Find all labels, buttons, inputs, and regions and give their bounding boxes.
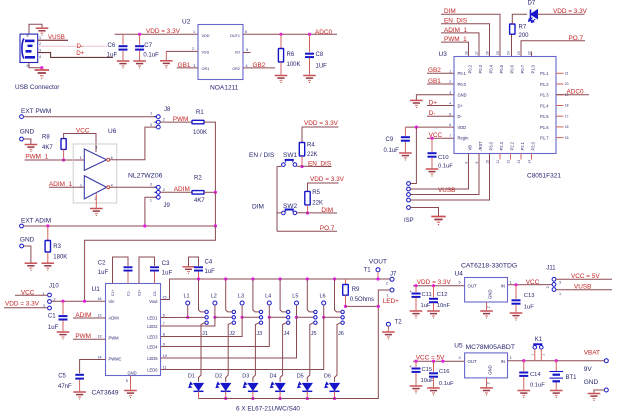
junction C1 — [61, 300, 64, 303]
svg-text:1: 1 — [150, 112, 152, 116]
wire D7 to VDD — [538, 13, 585, 15]
svg-text:L3: L3 — [238, 294, 244, 300]
svg-text:18: 18 — [565, 104, 569, 108]
wire J9 pin 1 to EXT ADIM — [145, 197, 156, 226]
svg-text:VUSB: VUSB — [438, 187, 455, 194]
svg-text:L5: L5 — [292, 294, 298, 300]
wire D6 to return rail — [334, 391, 336, 398]
wire PWM to R1 — [160, 121, 192, 123]
svg-text:C9: C9 — [386, 137, 394, 143]
wire D3 to return rail — [252, 391, 254, 398]
junction R5/DIM — [306, 211, 309, 214]
capacitor C7 — [139, 34, 141, 45]
wire L6 to LED6 net — [323, 305, 325, 317]
ground (U3 GND) — [410, 100, 423, 107]
wire bus to J3 top pin — [253, 279, 259, 312]
wire VDD 3.3V to J10 pin 3 — [4, 307, 48, 309]
U6 NL27WZ06 outline box — [73, 144, 117, 203]
svg-text:VDD: VDD — [458, 125, 467, 130]
wire ADIM to U1 pin 12 — [73, 317, 106, 319]
wire ISP pin 2 to U3 VB — [410, 154, 468, 190]
ground (BT1) — [550, 391, 563, 398]
svg-text:P2.2: P2.2 — [510, 141, 515, 150]
wire VDD to ISP pin 1 — [410, 127, 416, 183]
svg-text:1uF: 1uF — [205, 269, 216, 275]
svg-text:GB2: GB2 — [428, 67, 441, 74]
junction T1 — [376, 277, 379, 280]
svg-text:GND: GND — [458, 93, 467, 98]
junction bus drop 4 — [279, 277, 282, 280]
svg-text:C1-: C1- — [127, 290, 131, 296]
junction R6 — [279, 33, 282, 36]
ground (C8) — [303, 76, 316, 83]
svg-text:OR2: OR2 — [232, 67, 240, 71]
svg-text:5: 5 — [27, 34, 29, 38]
battery BT1 — [555, 361, 557, 372]
svg-text:5: 5 — [95, 146, 97, 150]
wire GND to ground — [23, 139, 31, 144]
svg-text:OUT: OUT — [468, 359, 477, 364]
svg-text:2: 2 — [192, 47, 194, 51]
wire LED1 from U1 — [161, 316, 205, 318]
svg-text:OR1: OR1 — [202, 67, 210, 71]
svg-text:J8: J8 — [164, 107, 171, 113]
svg-text:U1: U1 — [92, 286, 101, 293]
svg-text:GND: GND — [488, 365, 493, 375]
svg-text:EXT ADIM: EXT ADIM — [21, 218, 51, 225]
svg-text:0.1uF: 0.1uF — [439, 381, 454, 387]
svg-text:CAT6218-330TDG: CAT6218-330TDG — [461, 262, 517, 269]
junction bus drop 6 — [333, 277, 336, 280]
wire D1 to return rail — [198, 391, 200, 398]
svg-text:J9: J9 — [164, 203, 171, 209]
svg-text:20: 20 — [565, 82, 569, 86]
svg-text:D4: D4 — [270, 374, 277, 380]
ground (USB bottom) — [41, 68, 43, 70]
wire PWM to U1 pin 13 — [73, 338, 106, 340]
svg-text:MC78M05ABDT: MC78M05ABDT — [466, 344, 515, 351]
U2 pin 3 wire — [177, 67, 198, 69]
svg-text:LED2: LED2 — [147, 324, 158, 329]
capacitor C11 — [415, 286, 417, 292]
wire VDD rail to U2 pin 1 — [115, 33, 199, 35]
wire GND pin to ground — [594, 390, 604, 393]
svg-text:3: 3 — [150, 123, 152, 127]
svg-text:4: 4 — [246, 64, 248, 68]
svg-text:C11: C11 — [422, 292, 432, 298]
svg-text:10nF: 10nF — [437, 303, 451, 309]
ground (C16) — [427, 388, 440, 395]
svg-text:C12: C12 — [437, 292, 448, 298]
wire P0.7 to PO.7 label — [521, 41, 585, 57]
svg-text:P1.5: P1.5 — [540, 114, 549, 119]
junction rail D5 — [306, 397, 309, 400]
svg-text:ADIM: ADIM — [109, 315, 120, 320]
wire U4 GND pin to ground — [486, 302, 488, 310]
svg-text:15: 15 — [565, 136, 569, 140]
svg-text:U2: U2 — [182, 19, 191, 26]
ground (C1) — [57, 332, 70, 339]
junction bus drop 2 — [224, 277, 227, 280]
svg-text:DIM: DIM — [252, 204, 264, 211]
svg-text:C7: C7 — [144, 43, 152, 49]
wire U3 GND pin to ground — [416, 95, 454, 100]
wire U5 IN to VBAT — [508, 360, 605, 362]
svg-text:+: + — [409, 364, 412, 369]
svg-text:ADIM_1: ADIM_1 — [49, 181, 73, 188]
wire R3 to ground — [47, 252, 49, 263]
wire U6 pin 2 to ground — [95, 193, 97, 208]
svg-text:13: 13 — [517, 160, 521, 164]
wire VCC to J10 pin 1 — [15, 294, 48, 296]
svg-text:VCC = 5V: VCC = 5V — [571, 273, 600, 280]
ground (C6) — [117, 61, 130, 68]
svg-text:12: 12 — [98, 313, 102, 317]
wire VDD to R5 — [308, 183, 339, 191]
junction R4/EN_DIS — [300, 165, 303, 168]
wire D- from USB pin 2 — [38, 45, 107, 47]
svg-text:VDD = 3.3V: VDD = 3.3V — [5, 301, 40, 308]
svg-text:2: 2 — [163, 188, 165, 192]
svg-text:23: 23 — [517, 51, 521, 55]
svg-text:ADIM: ADIM — [75, 312, 91, 319]
ground (C5) — [73, 392, 86, 399]
svg-text:GND: GND — [488, 289, 493, 299]
svg-text:D7: D7 — [528, 1, 536, 7]
wire J4 bottom pin to D4 — [280, 323, 286, 382]
junction R8/PWM_1 — [62, 158, 65, 161]
wire LED2 from U1 — [161, 317, 233, 326]
svg-text:USB Connector: USB Connector — [15, 84, 60, 91]
capacitor C15 — [415, 361, 417, 367]
U3 P1.0 stub — [531, 52, 533, 57]
svg-text:C1+: C1+ — [111, 289, 115, 296]
junction Vin rail — [83, 300, 86, 303]
svg-text:P0.0: P0.0 — [458, 82, 467, 87]
connector J6 — [341, 310, 344, 313]
resistor R7 — [511, 34, 513, 56]
wire SW1 right to EN_DIS label — [297, 165, 332, 167]
wire U1 GND pin to ground — [130, 376, 132, 390]
svg-text:+: + — [409, 289, 412, 294]
svg-text:U4: U4 — [455, 270, 464, 277]
svg-text:R1: R1 — [196, 110, 204, 116]
svg-text:J10: J10 — [49, 284, 59, 290]
wire LED3 from U1 — [161, 317, 260, 336]
wire D+ from USB pin 3 — [38, 53, 113, 58]
wire ISP pin 5 to ground — [410, 208, 438, 216]
USB connector body — [20, 34, 38, 62]
svg-text:P1.6: P1.6 — [540, 125, 549, 130]
resistor R9 — [345, 279, 347, 285]
svg-text:C14: C14 — [530, 372, 541, 378]
svg-text:SW1: SW1 — [283, 152, 297, 159]
wire PWM_1 to U3 P0.2 — [441, 42, 469, 56]
svg-text:P3.0: P3.0 — [489, 141, 494, 150]
wire D4 to return rail — [279, 391, 281, 398]
ground (C11) — [410, 311, 423, 318]
ground (C15) — [410, 386, 423, 393]
svg-text:Vin: Vin — [109, 299, 116, 304]
svg-text:1: 1 — [510, 356, 512, 360]
svg-text:GB1: GB1 — [178, 62, 191, 69]
resistor R5 — [305, 191, 310, 205]
svg-text:1: 1 — [510, 280, 512, 284]
svg-text:BT1: BT1 — [566, 375, 578, 381]
junction J9 branch — [143, 224, 146, 227]
svg-text:22K: 22K — [307, 152, 318, 158]
ground (R6) — [275, 76, 288, 83]
svg-text:1: 1 — [559, 292, 561, 296]
svg-text:2: 2 — [487, 306, 491, 308]
svg-text:K1: K1 — [535, 337, 543, 343]
junction rail D4 — [279, 397, 282, 400]
svg-text:PO.7: PO.7 — [320, 225, 335, 232]
U2 pin 2 wire to ground — [166, 50, 198, 52]
ground (C10) — [426, 169, 439, 176]
wire R4 to EN_DIS — [301, 156, 303, 167]
svg-text:C6: C6 — [108, 43, 116, 49]
junction C8 — [308, 33, 311, 36]
wire R8 bottom to PWM_1 — [63, 149, 65, 160]
svg-text:22K: 22K — [312, 200, 323, 206]
svg-text:11: 11 — [496, 160, 500, 164]
svg-text:180K: 180K — [53, 255, 67, 261]
svg-text:16: 16 — [98, 297, 102, 301]
svg-text:0.1uF: 0.1uF — [530, 382, 545, 388]
svg-text:VCC: VCC — [21, 289, 35, 296]
wire U1 Vout to bus — [161, 279, 391, 300]
svg-text:1: 1 — [80, 156, 82, 160]
svg-text:2: 2 — [39, 42, 41, 46]
svg-text:2: 2 — [386, 281, 388, 285]
svg-text:14: 14 — [528, 160, 532, 164]
connector J3 — [259, 310, 262, 313]
svg-text:ADC0: ADC0 — [315, 29, 332, 36]
LED driver U1 CAT3649 body — [106, 284, 161, 376]
svg-text:OUT1: OUT1 — [230, 34, 240, 38]
svg-text:200: 200 — [519, 33, 530, 39]
wire L3 to LED3 net — [241, 305, 243, 317]
svg-text:U6: U6 — [108, 128, 117, 135]
svg-text:25: 25 — [496, 51, 500, 55]
svg-text:C2: C2 — [98, 261, 106, 267]
svg-text:D+: D+ — [458, 103, 464, 108]
capacitor C9 — [404, 127, 406, 136]
capacitor C14 — [523, 361, 525, 371]
wire USB pin 4 to ground — [29, 63, 42, 68]
ground (U6) — [90, 209, 103, 216]
svg-text:3: 3 — [39, 49, 41, 53]
junction rail D3 — [251, 397, 254, 400]
wire SW2 left — [277, 212, 282, 214]
svg-text:VDD = 3.3V: VDD = 3.3V — [146, 28, 181, 35]
svg-text:VBAT: VBAT — [584, 349, 600, 356]
terminal GND pin — [604, 388, 608, 392]
svg-text:P1.1: P1.1 — [540, 71, 549, 76]
svg-text:28: 28 — [465, 51, 469, 55]
ground (C14) — [517, 391, 530, 398]
svg-text:R8: R8 — [42, 134, 50, 140]
svg-text:R2: R2 — [194, 176, 202, 182]
svg-text:3: 3 — [150, 183, 152, 187]
svg-text:C4: C4 — [205, 260, 213, 266]
svg-text:10: 10 — [486, 160, 490, 164]
svg-text:D+: D+ — [76, 50, 84, 57]
wire VDD 3.3V to U4 OUT — [413, 285, 465, 287]
svg-text:C8: C8 — [316, 52, 324, 58]
junction rail D6 — [333, 397, 336, 400]
capacitor C12 — [433, 286, 435, 298]
svg-text:6: 6 — [163, 313, 165, 317]
svg-text:ISP: ISP — [404, 218, 414, 224]
junction R3 — [46, 224, 49, 227]
svg-text:1: 1 — [39, 36, 41, 40]
svg-text:D2: D2 — [215, 374, 222, 380]
svg-text:6: 6 — [449, 123, 451, 127]
op-amp U2 NOA1211 body — [198, 25, 243, 80]
wire L2 to LED2 net — [214, 305, 216, 317]
svg-text:D-: D- — [77, 43, 84, 50]
svg-text:5: 5 — [459, 280, 461, 284]
svg-text:RegIn: RegIn — [458, 136, 470, 141]
svg-text:U5: U5 — [454, 343, 463, 350]
ground (ISP) — [431, 217, 445, 225]
svg-text:D-: D- — [429, 110, 436, 117]
svg-text:2: 2 — [487, 382, 491, 384]
junction C15 — [414, 360, 417, 363]
svg-text:NL27WZ06: NL27WZ06 — [128, 172, 163, 179]
svg-text:PWMC: PWMC — [109, 356, 122, 361]
junction C11 — [414, 284, 417, 287]
svg-text:EXT PWM: EXT PWM — [21, 108, 51, 115]
wire R9 to LED+ node — [345, 295, 347, 306]
wire D5 to return rail — [306, 391, 308, 398]
svg-text:1uF: 1uF — [524, 304, 534, 310]
svg-text:1: 1 — [387, 294, 389, 298]
svg-text:8: 8 — [163, 332, 165, 336]
svg-text:T2: T2 — [395, 319, 403, 325]
wire SW2 right to DIM label — [297, 212, 337, 214]
connector J4 — [287, 310, 290, 313]
svg-text:3: 3 — [559, 280, 561, 284]
wire LED+ node — [346, 305, 379, 307]
resistor R3 — [47, 226, 49, 241]
svg-text:J6: J6 — [338, 331, 344, 337]
wire ADIM_1 to U3 P0.3 — [441, 33, 479, 57]
wire LED4 from U1 — [161, 317, 287, 346]
svg-text:EN / DIS: EN / DIS — [249, 152, 275, 159]
wire D2 to return rail — [225, 391, 227, 398]
wire EN_DIS to U3 P0.4 — [441, 24, 490, 57]
svg-text:D6: D6 — [324, 374, 331, 380]
capacitor C1 — [62, 301, 64, 315]
svg-text:21: 21 — [565, 72, 569, 76]
svg-text:2: 2 — [163, 117, 165, 121]
connector J9 — [155, 186, 157, 188]
svg-text:VDD = 3.3V: VDD = 3.3V — [553, 8, 588, 15]
wire ADIM_1 input — [49, 186, 84, 188]
wire bus to J5 top pin — [307, 279, 313, 312]
svg-text:PWM: PWM — [75, 333, 91, 340]
svg-text:1: 1 — [193, 30, 195, 34]
svg-text:P0.5: P0.5 — [499, 64, 504, 73]
svg-text:EN_DIS: EN_DIS — [308, 160, 331, 167]
junction bus drop 5 — [306, 277, 309, 280]
ground (C12) — [427, 311, 440, 318]
wire L5 to LED5 net — [296, 305, 298, 317]
svg-text:P0.7: P0.7 — [520, 64, 525, 73]
svg-text:C1: C1 — [48, 314, 56, 320]
wire VCC to U3 RegIn — [427, 137, 454, 139]
svg-text:L4: L4 — [265, 294, 271, 300]
svg-text:4K7: 4K7 — [42, 145, 53, 151]
wire switch common vertical — [276, 167, 278, 232]
svg-text:C2-: C2- — [153, 290, 157, 296]
svg-text:PWM: PWM — [173, 116, 189, 123]
svg-text:10uF: 10uF — [421, 378, 435, 384]
svg-text:VUSB: VUSB — [574, 284, 591, 291]
junction rail D2 — [224, 397, 227, 400]
junction rail corner — [377, 305, 380, 308]
U2 pin 5 stub — [243, 52, 251, 54]
ground (T2) — [382, 332, 395, 339]
svg-text:D5: D5 — [297, 374, 304, 380]
svg-text:GND: GND — [584, 379, 599, 386]
svg-text:100K: 100K — [287, 62, 301, 68]
svg-text:P1.0: P1.0 — [531, 64, 536, 73]
wire ADIM to R2 — [160, 191, 192, 193]
svg-text:7: 7 — [163, 322, 165, 326]
capacitor C13 — [515, 285, 517, 299]
wire J5 bottom pin to D5 — [307, 323, 313, 382]
svg-text:10: 10 — [163, 354, 167, 358]
svg-text:IN: IN — [501, 359, 505, 364]
wire U1 PWMC to C5 — [80, 360, 106, 374]
wire LED6 from U1 — [161, 317, 341, 369]
svg-text:47nF: 47nF — [58, 384, 72, 390]
svg-text:7: 7 — [449, 134, 451, 138]
svg-text:4: 4 — [39, 55, 41, 59]
ground (U4) — [480, 311, 493, 318]
wire J1 bottom pin to D1 — [199, 323, 205, 382]
ground (C9) — [399, 153, 412, 160]
svg-text:C5: C5 — [58, 373, 66, 379]
wire J11 pin 3 VCC=5V — [556, 278, 612, 280]
capacitor C3 and flying-cap bridge — [139, 257, 155, 284]
svg-text:9V: 9V — [584, 366, 593, 373]
microcontroller U3 C8051F321 body — [454, 57, 556, 154]
svg-text:Vout: Vout — [149, 299, 158, 304]
wire D- to U3 — [427, 115, 454, 117]
svg-text:GND: GND — [128, 370, 137, 375]
U2 pin 4 wire — [243, 67, 275, 69]
resistor R4 — [299, 143, 304, 157]
ground (R3) — [42, 263, 55, 270]
svg-text:R5: R5 — [312, 190, 320, 196]
svg-text:VDD: VDD — [202, 34, 210, 38]
svg-text:LED6: LED6 — [147, 367, 158, 372]
junction VDD/C9 — [415, 126, 418, 129]
wire EXT ADIM net to Vin rail — [85, 226, 216, 301]
svg-text:100K: 100K — [193, 130, 207, 136]
svg-text:J3: J3 — [256, 331, 262, 337]
capacitor C5 — [75, 374, 84, 376]
svg-text:P0.1: P0.1 — [458, 71, 467, 76]
svg-text:L6: L6 — [320, 294, 326, 300]
wire R1 to vertical — [204, 122, 215, 192]
svg-text:D-: D- — [458, 114, 463, 119]
